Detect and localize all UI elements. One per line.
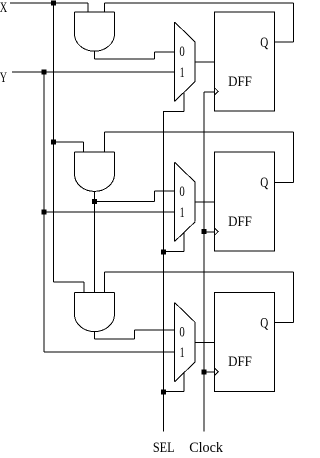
svg-text:0: 0 — [179, 184, 184, 200]
svg-text:1: 1 — [180, 205, 185, 221]
svg-text:0: 0 — [179, 44, 184, 60]
svg-text:Q: Q — [260, 35, 268, 51]
svg-text:Q: Q — [260, 315, 268, 331]
svg-text:Clock: Clock — [189, 440, 224, 453]
svg-text:DFF: DFF — [228, 214, 252, 230]
svg-text:DFF: DFF — [228, 74, 252, 90]
svg-text:Q: Q — [260, 175, 268, 191]
svg-text:1: 1 — [180, 65, 185, 81]
svg-text:DFF: DFF — [228, 354, 252, 370]
svg-text:0: 0 — [179, 324, 184, 340]
svg-text:SEL: SEL — [153, 440, 175, 453]
svg-text:1: 1 — [180, 345, 185, 361]
svg-text:X: X — [0, 0, 8, 16]
svg-text:Y: Y — [0, 70, 7, 86]
